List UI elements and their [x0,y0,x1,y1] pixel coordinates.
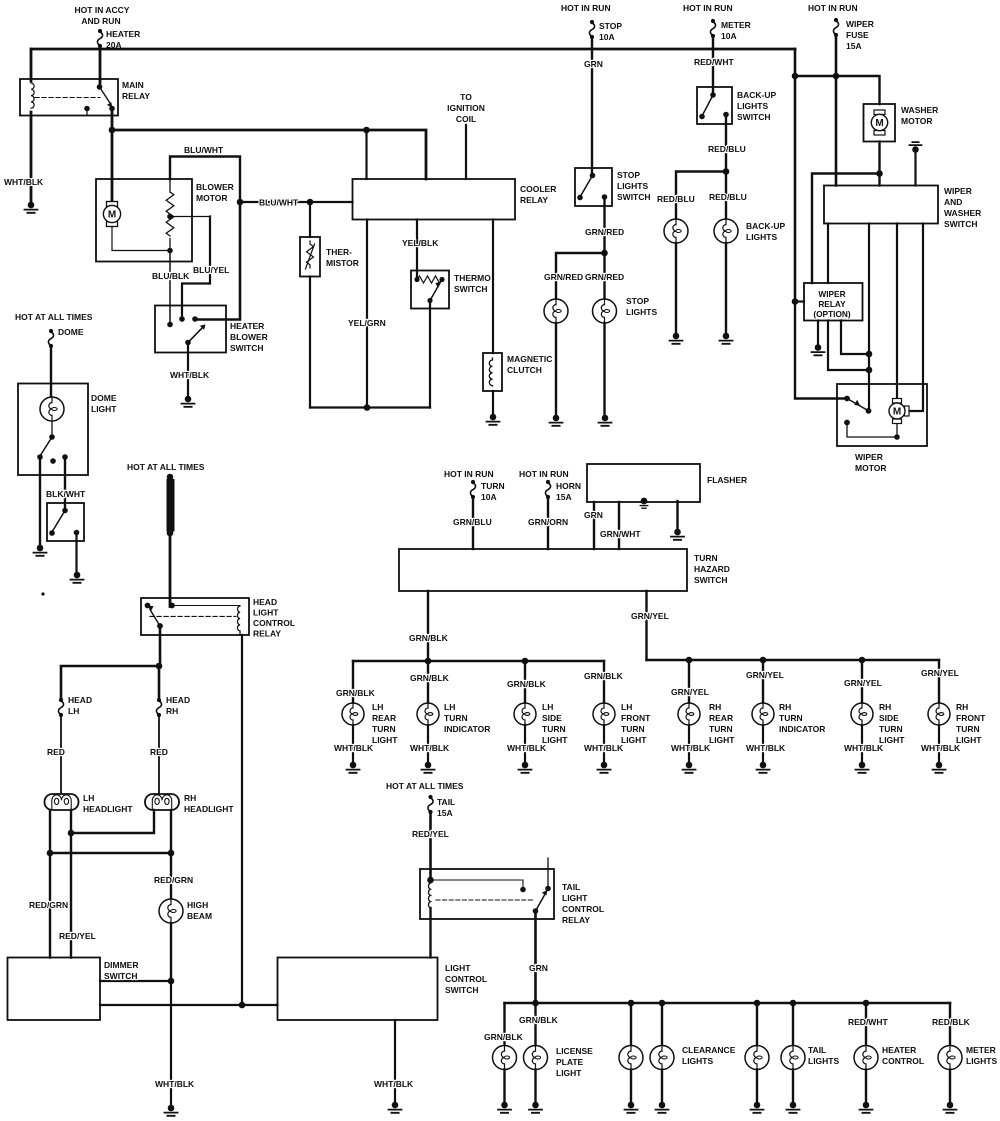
lamp backup left [664,219,688,243]
wire RH headlight high-beam pin [170,810,172,853]
main relay lever [100,87,111,103]
heater blower switch lever [185,324,205,345]
svg-text:BACK-UP: BACK-UP [737,90,777,100]
label BACK-UP LIGHTS SWITCH [737,90,777,122]
label LH REAR TURN LIGHT [372,702,398,745]
wire magnetic clutch to ground [492,391,494,414]
node junction x795 wiper relay feed [792,298,799,305]
ground RH side turn [856,762,869,773]
stray mark [41,592,44,595]
wire license lamp 1 drop [503,1003,505,1046]
svg-text:WHT/BLK: WHT/BLK [410,743,450,753]
lamp heater control [854,1046,878,1070]
svg-text:GRN: GRN [529,963,548,973]
svg-text:STOP: STOP [599,21,622,31]
svg-text:HORN: HORN [556,481,581,491]
thermistor element [306,241,315,269]
label BLOWER MOTOR [196,182,234,203]
svg-text:METER: METER [966,1045,996,1055]
wire flasher pin GRN/WHT [618,502,620,549]
thermo switch element [414,276,444,303]
wires stop lamps to grounds [556,323,605,415]
label TO IGNITION COIL [447,92,485,124]
svg-text:RELAY: RELAY [122,91,150,101]
svg-text:LIGHT: LIGHT [372,735,398,745]
head light control relay internals [145,603,240,635]
lamp license plate 1 [493,1046,517,1070]
wire washer junction to wiper relay [812,174,880,284]
node junction clearance 2 [659,1000,666,1007]
wire RH rear turn drop [688,660,690,703]
svg-text:GRN/RED: GRN/RED [544,272,583,282]
wire stop lamp branch [556,253,605,299]
node junction YEL/GRN bottom [364,404,371,411]
svg-text:TURN: TURN [444,713,468,723]
label HEATER CONTROL [882,1045,924,1066]
wire light control switch to ground WHT/BLK [394,1020,396,1102]
wire tail lamp drops [757,1003,793,1046]
wire high beam lamp to dimmer junction [170,923,172,981]
svg-text:RELAY: RELAY [253,629,281,639]
svg-text:RH: RH [956,702,968,712]
dome door switch box [47,503,84,541]
svg-text:SWITCH: SWITCH [617,192,651,202]
svg-text:RED/YEL: RED/YEL [59,931,96,941]
wire LH headlight low-beam pin [70,810,72,833]
svg-text:10A: 10A [481,492,497,502]
label METER LIGHTS [966,1045,997,1066]
wire heater control lamp drop RED/WHT [865,1003,867,1046]
wire YEL/GRN column [366,220,368,408]
svg-text:15A: 15A [846,41,862,51]
svg-text:HEAD: HEAD [253,597,277,607]
wire wiper switch pin1 to wiper relay [827,224,829,284]
wire LH turn bus [353,660,604,662]
node resistor tap [167,214,173,220]
svg-text:WHT/BLK: WHT/BLK [170,370,210,380]
svg-text:DIMMER: DIMMER [104,960,138,970]
wire main relay output to bus2 [111,108,114,131]
wire magnetic clutch feed [492,220,494,354]
svg-text:HEAD: HEAD [166,695,190,705]
wire flasher pin GRN [593,502,595,549]
wires RH turn lamps to grounds WHT/BLK [689,725,939,762]
label TAIL 15A [437,797,455,818]
svg-text:M: M [875,118,883,129]
svg-text:DOME: DOME [58,327,84,337]
label HEAD LIGHT CONTROL RELAY [253,597,295,639]
main relay spare contact [84,106,90,112]
svg-text:RED/WHT: RED/WHT [848,1017,888,1027]
svg-text:GRN/YEL: GRN/YEL [844,678,882,688]
wire license lamp 2 drop [534,1003,536,1046]
svg-text:BLU/WHT: BLU/WHT [259,198,299,208]
svg-text:LH: LH [83,793,94,803]
svg-text:WHT/BLK: WHT/BLK [334,743,374,753]
svg-text:WHT/BLK: WHT/BLK [374,1079,414,1089]
svg-text:HOT IN RUN: HOT IN RUN [561,3,611,13]
node HOT IN ACCY AND RUN label [75,5,130,26]
svg-text:WIPER: WIPER [818,289,845,299]
fusible link headlight [167,474,175,537]
svg-text:LICENSE: LICENSE [556,1046,593,1056]
ground backup left [670,333,683,344]
wire HEAD RH fuse to RH headlight RED [158,715,160,798]
svg-text:HOT AT ALL TIMES: HOT AT ALL TIMES [386,781,464,791]
wire dome fuse to dome light [50,346,52,397]
wire washer motor to wiper switch [878,142,880,186]
node junction BLU/WHT [237,199,244,206]
stop lights switch box [575,168,612,206]
label STOP 10A [599,21,622,42]
svg-text:GRN/BLK: GRN/BLK [519,1015,559,1025]
wire cooler relay pin feed [365,130,367,179]
svg-text:10A: 10A [599,32,615,42]
svg-text:(OPTION): (OPTION) [813,309,851,319]
svg-text:REAR: REAR [709,713,733,723]
svg-text:HAZARD: HAZARD [694,564,730,574]
svg-text:GRN/RED: GRN/RED [585,272,624,282]
svg-text:TURN: TURN [372,724,396,734]
svg-text:TURN: TURN [956,724,980,734]
wire stop switch output GRN/RED [603,197,605,299]
svg-text:GRN/BLU: GRN/BLU [453,517,492,527]
svg-text:HEATER: HEATER [106,29,140,39]
svg-text:SWITCH: SWITCH [737,112,771,122]
wire LH front turn drop [603,661,605,703]
wire RED/GRN to high beam lamp [170,853,172,899]
wires LH turn lamps to grounds WHT/BLK [353,725,604,762]
svg-text:TURN: TURN [779,713,803,723]
label LH SIDE TURN LIGHT [542,702,568,745]
label MAIN RELAY [122,80,150,101]
node junction wiper fuse cross [833,73,840,80]
light control switch box [278,958,438,1021]
svg-text:MAIN: MAIN [122,80,144,90]
label WASHER MOTOR [901,105,938,126]
label METER 10A [721,20,751,41]
svg-text:LIGHTS: LIGHTS [746,232,777,242]
svg-text:BACK-UP: BACK-UP [746,221,786,231]
ground stop lamp left [550,415,563,426]
svg-text:LIGHT: LIGHT [621,735,647,745]
wire RED/GRN to dimmer [49,853,51,958]
svg-text:LIGHTS: LIGHTS [808,1056,839,1066]
svg-text:HOT IN ACCY: HOT IN ACCY [75,5,130,15]
wire BLU/WHT drop to heater blower switch [195,202,240,320]
wire meter lights drop RED/BLK [949,1003,951,1046]
svg-text:RED/GRN: RED/GRN [29,900,68,910]
node junction wiper motor feed2 [866,367,873,374]
fuse STOP 10A [589,20,594,39]
fuse WIPER FUSE 15A [833,18,838,37]
svg-text:GRN/YEL: GRN/YEL [631,611,669,621]
svg-text:IGNITION: IGNITION [447,103,485,113]
svg-text:HOT IN RUN: HOT IN RUN [519,469,569,479]
label DIMMER SWITCH [104,960,138,981]
wire wiper relay pin to ground [817,321,819,345]
lamp tail 2 [781,1046,805,1070]
lamp HIGH BEAM [159,899,183,923]
wire heater blower switch to ground WHT/BLK [187,343,189,397]
ground license lamp 2 [529,1102,542,1113]
lamp stop right [593,299,617,323]
svg-text:TAIL: TAIL [562,882,580,892]
svg-text:FLASHER: FLASHER [707,475,747,485]
svg-text:YEL/GRN: YEL/GRN [348,318,386,328]
node junction RH indicator [760,657,767,664]
svg-text:WIPER: WIPER [855,452,883,462]
svg-text:YEL/BLK: YEL/BLK [402,238,439,248]
wire turn switch output GRN/BLK [427,591,429,661]
svg-text:TURN: TURN [694,553,718,563]
svg-text:BLOWER: BLOWER [230,332,268,342]
ground RH rear turn [683,762,696,773]
wire BLU/WHT riser from resistor top [170,157,240,203]
lamp LH front turn light [593,703,615,725]
back-up lights switch box [697,87,732,124]
svg-text:M: M [893,407,901,418]
svg-text:HIGH: HIGH [187,900,208,910]
label HEAD RH [166,695,190,716]
label MAGNETIC CLUTCH [507,354,552,375]
lamp RH turn indicator [752,703,774,725]
wiper motor M symbol [889,399,909,424]
thermo switch box [411,271,449,309]
wire bus2 to cooler relay [112,130,426,179]
svg-text:CLEARANCE: CLEARANCE [682,1045,736,1055]
svg-text:RED: RED [150,747,168,757]
ground light control switch [389,1102,402,1113]
wire LH side turn drop [524,661,526,703]
label TURN 10A [481,481,505,502]
wire BLU/WHT horizontal to cooler relay [240,201,353,203]
wiper and washer switch box [824,186,938,224]
wire to HEAD RH fuse [158,666,161,698]
wire clearance lamp drops [631,1003,662,1046]
lamp tail 1 [745,1046,769,1070]
node junction tail lamp 1 [754,1000,761,1007]
svg-text:PLATE: PLATE [556,1057,584,1067]
svg-text:THER-: THER- [326,247,352,257]
svg-text:SWITCH: SWITCH [944,219,978,229]
ground clearance 1 [625,1102,638,1113]
svg-text:RED: RED [47,747,65,757]
ground RH front turn [933,762,946,773]
wire x795 to wiper relay coil [795,300,804,302]
label LICENSE PLATE LIGHT [556,1046,593,1078]
svg-text:HOT IN RUN: HOT IN RUN [683,3,733,13]
lamp RH front turn light [928,703,950,725]
wiper motor switch contacts [844,396,871,426]
svg-text:MAGNETIC: MAGNETIC [507,354,552,364]
wire heater control lamp to ground [865,1070,867,1103]
label STOP LIGHTS [626,296,657,317]
svg-text:HEAD: HEAD [68,695,92,705]
node junction cooler feed [363,127,370,134]
svg-text:10A: 10A [721,31,737,41]
wire flasher pin 4 to ground [676,501,678,529]
lamp LH side turn light [514,703,536,725]
wire junction to dimmer switch [100,980,171,982]
fuse HORN 15A [545,480,550,499]
svg-text:LIGHT: LIGHT [709,735,735,745]
label WIPER AND WASHER SWITCH [944,186,981,229]
svg-text:GRN/WHT: GRN/WHT [600,529,641,539]
ground dome door switch [71,572,84,583]
svg-text:SIDE: SIDE [879,713,899,723]
heater blower switch contacts [167,316,198,327]
svg-text:RELAY: RELAY [520,195,548,205]
label HORN 15A [556,481,581,502]
svg-text:HOT AT ALL TIMES: HOT AT ALL TIMES [15,312,93,322]
wire tail fuse to tail relay RED/YEL [429,812,432,880]
svg-text:FRONT: FRONT [956,713,986,723]
wire BLU/BLK resistor to heater blower switch [169,251,171,325]
wire RH front turn drop [938,660,940,703]
svg-text:COIL: COIL [456,114,476,124]
wire thermistor bottom run [309,277,311,408]
svg-text:GRN: GRN [584,510,603,520]
main relay coil [31,83,34,108]
wire wiper switch pin4 to wiper motor side [910,224,923,412]
svg-text:AND RUN: AND RUN [81,16,120,26]
wire dome door switch to ground [75,533,77,573]
ground LH rear turn [347,762,360,773]
svg-text:WHT/BLK: WHT/BLK [746,743,786,753]
svg-text:WHT/BLK: WHT/BLK [584,743,624,753]
ground magnetic clutch [487,414,500,425]
svg-text:15A: 15A [556,492,572,502]
svg-text:WIPER: WIPER [846,19,874,29]
main relay dashed link [35,97,100,99]
svg-text:SIDE: SIDE [542,713,562,723]
svg-text:CONTROL: CONTROL [253,618,295,628]
label HIGH BEAM [187,900,212,921]
ground heater blower switch [182,396,195,407]
wire license lamps to grounds [505,1070,536,1103]
svg-text:LIGHT: LIGHT [253,608,279,618]
ground clearance 2 [656,1102,669,1113]
label THERMO SWITCH [454,273,491,294]
svg-text:HEADLIGHT: HEADLIGHT [83,804,133,814]
RH headlight [145,794,179,810]
lamp backup right [714,219,738,243]
wire horn fuse to switch GRN/ORN [547,497,549,549]
wire fusible link to head light control relay [169,533,172,607]
fuse TAIL 15A [428,795,433,814]
wire LH headlight high-beam pin [49,810,51,853]
node resistor bottom junction [167,248,173,254]
svg-text:RED/WHT: RED/WHT [694,57,734,67]
node junction relay coil to switch line [239,1002,246,1009]
head light control relay coil output long run [241,635,243,1005]
ground license lamp 1 [498,1102,511,1113]
svg-text:HOT AT ALL TIMES: HOT AT ALL TIMES [127,462,205,472]
svg-text:BEAM: BEAM [187,911,212,921]
svg-text:RH: RH [779,702,791,712]
wire meter fuse to backup switch RED/WHT [712,36,714,95]
svg-text:BLU/WHT: BLU/WHT [184,145,224,155]
node junction LH side turn [522,658,529,665]
svg-text:RED/GRN: RED/GRN [154,875,193,885]
wire clearance lamps to grounds [631,1070,662,1103]
svg-text:RELAY: RELAY [562,915,590,925]
svg-text:LH: LH [444,702,455,712]
head light control relay box [141,598,249,635]
blower resistor [166,179,174,251]
svg-text:RH: RH [709,702,721,712]
svg-text:CONTROL: CONTROL [882,1056,924,1066]
tail relay internals [427,858,551,914]
wire tail relay output GRN [534,911,537,1003]
svg-text:TO: TO [460,92,472,102]
wire ground to wiper switch [914,151,916,186]
node junction wiper motor bottom [894,434,900,440]
ground LH front turn [598,762,611,773]
label WIPER FUSE 15A [846,19,874,51]
svg-text:TURN: TURN [879,724,903,734]
svg-text:TURN: TURN [709,724,733,734]
heater blower switch box [155,306,226,353]
lamp license plate 2 [524,1046,548,1070]
svg-text:WHT/BLK: WHT/BLK [844,743,884,753]
svg-text:HEATER: HEATER [882,1045,916,1055]
label TAIL LIGHTS [808,1045,839,1066]
svg-text:INDICATOR: INDICATOR [779,724,825,734]
svg-text:CLUTCH: CLUTCH [507,365,542,375]
svg-text:GRN/YEL: GRN/YEL [746,670,784,680]
wire thermistor drop [309,202,311,237]
label RH TURN INDICATOR [779,702,825,734]
wire backup lamp branch [676,172,726,220]
wire wiper relay pin2 [828,321,869,371]
lamp clearance 1 [619,1046,643,1070]
node junction dimmer high beam [168,978,175,985]
svg-text:HOT IN RUN: HOT IN RUN [808,3,858,13]
svg-text:LIGHTS: LIGHTS [737,101,768,111]
node junction heater control [863,1000,870,1007]
svg-text:RED/BLK: RED/BLK [932,1017,971,1027]
svg-text:DOME: DOME [91,393,117,403]
svg-text:TAIL: TAIL [808,1045,826,1055]
svg-text:GRN/RED: GRN/RED [585,227,624,237]
wire dome light to door switch BLK/WHT [64,457,66,511]
tail light control relay box [420,869,554,919]
washer motor box [864,104,896,142]
label BACK-UP LIGHTS [746,221,786,242]
wire LH rear turn drop [352,661,354,703]
node junction high beam [47,850,54,857]
node junction low beam [68,830,75,837]
stop lights switch contacts [577,173,607,201]
svg-text:SWITCH: SWITCH [694,575,728,585]
svg-text:LIGHT: LIGHT [91,404,117,414]
svg-text:GRN/BLK: GRN/BLK [410,673,450,683]
wire turn fuse to switch GRN/BLU [472,497,474,549]
svg-text:GRN: GRN [584,59,603,69]
wire dimmer ground run WHT/BLK [170,981,172,1105]
svg-text:RH: RH [879,702,891,712]
ground dimmer circuit [165,1105,178,1116]
svg-text:WHT/BLK: WHT/BLK [671,743,711,753]
svg-text:TURN: TURN [481,481,505,491]
wire main relay coil feed and ground run WHT/BLK [30,49,33,202]
lamp clearance 2 [650,1046,674,1070]
svg-text:COOLER: COOLER [520,184,556,194]
ground wiper relay [812,344,825,355]
svg-text:WASHER: WASHER [944,208,981,218]
